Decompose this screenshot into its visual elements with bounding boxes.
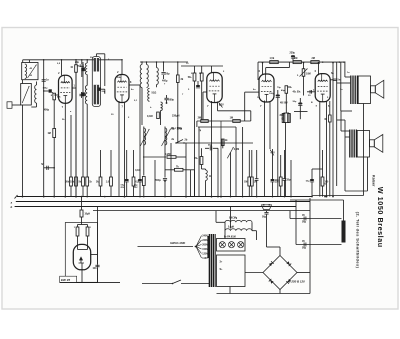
- svg-text:1M: 1M: [294, 57, 297, 60]
- dial lamp 3: [238, 242, 244, 248]
- svg-text:50p: 50p: [287, 180, 292, 182]
- svg-text:51Ω: 51Ω: [152, 92, 157, 95]
- svg-text:1M: 1M: [244, 182, 247, 184]
- output transformer T-sp1: [350, 76, 352, 105]
- svg-text:10µH: 10µH: [85, 214, 91, 216]
- resistor 46k: [285, 86, 288, 94]
- wire transformer bottom: [217, 293, 311, 295]
- wire below-bus heater line: [93, 210, 310, 212]
- resistor 0,2M: [167, 156, 176, 159]
- wire box1 top links: [22, 60, 24, 63]
- loudspeaker SP2 box: [357, 131, 369, 158]
- label EW35 box: [60, 276, 77, 282]
- resistor comb x76: [75, 72, 77, 177]
- svg-text:200V: 200V: [202, 244, 208, 247]
- svg-text:EW 35: EW 35: [61, 278, 70, 282]
- resistor comb x111: [110, 150, 112, 177]
- wire ew35 right vertical: [97, 206, 99, 264]
- svg-text:50µ: 50µ: [302, 247, 307, 250]
- capacitor 50u dot right: [298, 102, 302, 104]
- tube V2 top pin wire: [121, 60, 123, 75]
- capacitor comb x256.7: [256, 150, 258, 179]
- resistor comb x322.5: [322, 150, 324, 177]
- resistor 7k: [174, 168, 183, 171]
- resistor 1k mid: [222, 139, 225, 146]
- rail dots right: [322, 61, 324, 63]
- IF can T2 secondary winding: [94, 85, 99, 105]
- tube V1 pin7 bottom wire: [64, 103, 66, 196]
- svg-text:1,5k: 1,5k: [270, 57, 275, 60]
- resistor ew35 b: [87, 225, 89, 228]
- tube V5 top pin: [318, 63, 320, 75]
- svg-text:10M: 10M: [306, 73, 311, 76]
- capacitor 20p IF1: [81, 60, 83, 64]
- tube V1 pin8 wire: [54, 94, 58, 96]
- trimmer arrow L1: [28, 65, 37, 79]
- wire bus line a: [16, 201, 310, 203]
- wire x186 drop: [185, 143, 187, 197]
- svg-text:400µ: 400µ: [162, 80, 168, 83]
- wire box1-box2 link: [22, 80, 24, 84]
- coil L2b: [35, 85, 37, 103]
- bridge diode 4: [269, 261, 274, 266]
- wire rail branch 67.6: [266, 67, 290, 69]
- resistor 20k mid: [200, 157, 203, 165]
- grid resistor 10M: [302, 69, 305, 77]
- wire V3 125 to bus: [220, 121, 222, 197]
- wire left drop x22.5: [22, 105, 24, 197]
- wire can top: [343, 200, 345, 221]
- tube V3 bottom pins: [211, 101, 213, 197]
- tube V4 bottom pins: [264, 101, 266, 197]
- loudspeaker SP1 magnet: [371, 86, 376, 93]
- loudspeaker SP2 magnet: [370, 140, 375, 147]
- wire V3 top structure: [181, 65, 223, 67]
- tube V5 bottom pins: [319, 102, 321, 197]
- resistor 300ohm a: [282, 114, 285, 123]
- tuned circuit L1 box: [22, 63, 38, 80]
- svg-text:400p: 400p: [44, 108, 50, 111]
- wire mains feed: [138, 246, 194, 248]
- resistor comb x100.5: [100, 150, 102, 177]
- svg-text:2M: 2M: [198, 116, 201, 119]
- svg-text:1M: 1M: [230, 116, 233, 119]
- tube V2 EBF grid dashes: [117, 86, 126, 88]
- svg-text:2M: 2M: [312, 57, 315, 60]
- tube V3 EF grid dashes: [209, 85, 219, 87]
- wire bus line b: [15, 206, 296, 208]
- svg-text:Ω: Ω: [209, 175, 211, 178]
- wire 1M to bus: [235, 127, 237, 197]
- electrolytic 50u b: [296, 244, 342, 246]
- svg-text:Ω: Ω: [325, 184, 327, 186]
- electrolytic 45u: [290, 218, 342, 220]
- top rail junction dots: [61, 59, 63, 61]
- svg-text:Uk = 100µ: Uk = 100µ: [171, 127, 183, 130]
- oscillator coil L4: [146, 62, 148, 65]
- wire ew35 bottom: [60, 282, 120, 284]
- bridge diode 2: [286, 279, 291, 284]
- svg-text:GW/UA 100D: GW/UA 100D: [170, 242, 185, 245]
- svg-text:220V: 220V: [202, 239, 208, 242]
- svg-text:0,6µH: 0,6µH: [228, 226, 235, 228]
- capacitor 20p square a: [81, 67, 85, 71]
- electrolytic 50u psu: [264, 212, 268, 214]
- wire chassis bus line 1: [17, 196, 313, 198]
- svg-text:W 1050 Breslau: W 1050 Breslau: [376, 187, 385, 248]
- tube V3 EF cathode: [213, 93, 217, 95]
- wire sp2 links: [341, 130, 350, 132]
- resistor 10k IF: [75, 60, 77, 65]
- label 62V V3: [219, 103, 223, 108]
- wire choke links: [224, 222, 226, 238]
- tube V2 EBF heater zigzag: [117, 81, 126, 83]
- wire V4 left feed: [245, 91, 259, 93]
- oscillator coil L5: [156, 62, 158, 68]
- tube V5 EL cathode: [321, 93, 325, 95]
- loudspeaker SP2 cone: [374, 135, 383, 153]
- wire main drop x43.7: [43, 60, 45, 197]
- resistor 1M row: [233, 120, 241, 123]
- resistor 0,1M comb: [143, 160, 145, 176]
- resistor V3 screen 1: [194, 66, 196, 73]
- coil L1: [25, 64, 27, 79]
- tuned circuit L2 box: [21, 84, 32, 106]
- svg-text:C 250 B 120: C 250 B 120: [289, 279, 306, 283]
- node bus1 left mark: [15, 195, 18, 199]
- bridge rectifier diamond: [263, 256, 297, 290]
- electrolytic comb x312: [311, 169, 313, 180]
- capacitor V3 dot: [196, 85, 200, 87]
- svg-text:25V: 25V: [134, 187, 138, 189]
- svg-text:50p: 50p: [166, 72, 171, 75]
- svg-text:0,2M: 0,2M: [165, 153, 170, 156]
- electrolytic comb x140: [139, 85, 141, 180]
- svg-text:1M: 1M: [47, 132, 50, 135]
- heater choke 1: [225, 220, 252, 222]
- wire screen row: [197, 120, 251, 122]
- capacitor 20p T2 mid: [98, 88, 101, 91]
- tube V1 grid side wire: [72, 87, 76, 89]
- tube V5 right pin 5n cap: [330, 79, 333, 81]
- svg-text:4B 50V: 4B 50V: [280, 101, 288, 104]
- svg-text:(2. Teil des Schaltbildes): (2. Teil des Schaltbildes): [356, 212, 361, 269]
- tube V3 left pin: [203, 91, 207, 93]
- svg-text:50µ: 50µ: [302, 221, 307, 224]
- resistor comb x71: [70, 115, 72, 177]
- switch 2a wire: [176, 142, 253, 144]
- svg-text:20p: 20p: [102, 91, 106, 93]
- capacitor 70p: [209, 146, 211, 150]
- svg-text:b: b: [10, 205, 12, 209]
- power transformer secondary box: [217, 255, 246, 287]
- svg-text:100p: 100p: [43, 88, 49, 90]
- wire V3 pin5 routing: [217, 102, 219, 111]
- trimmer arrow L2: [22, 86, 29, 103]
- wire b+ feed: [267, 246, 281, 248]
- wire T2 right link: [101, 88, 105, 90]
- voltage selector fan: [196, 236, 202, 247]
- wire ew35 split: [78, 224, 88, 226]
- resistor 1M top rail: [293, 61, 301, 64]
- svg-text:230µH: 230µH: [172, 115, 180, 118]
- svg-text:150V: 150V: [202, 248, 208, 251]
- resistor 10uH ew35: [80, 210, 83, 217]
- resistor 2M row: [201, 120, 209, 123]
- tube V5 EL grid dashes: [318, 85, 328, 87]
- wire sp1 bottom drop: [363, 104, 365, 196]
- wire comb plain drops: [154, 160, 156, 197]
- IF transformer T1 secondary coil: [85, 86, 87, 105]
- tube V4 EABC grid dashes: [262, 86, 272, 88]
- tube V1 ECH envelope: [59, 75, 73, 103]
- tube V1 ECH cathode: [63, 95, 67, 97]
- svg-text:240V: 240V: [202, 235, 208, 238]
- svg-text:0,5M: 0,5M: [234, 148, 239, 151]
- capacitor 50p osc: [161, 72, 165, 74]
- tube V2 EBF cathode: [120, 94, 124, 96]
- capacitor comb x284.5: [284, 150, 286, 179]
- volume pot 0,5M arrow: [227, 147, 233, 158]
- resistor 1,5k top rail: [270, 61, 279, 64]
- IF can T2 primary winding: [94, 58, 99, 72]
- tube V4 EABC envelope: [259, 74, 274, 102]
- resistor osc right: [177, 62, 179, 75]
- tube V3 EF heater zigzag: [209, 80, 219, 82]
- resistor V3 screen 2: [201, 66, 203, 73]
- heater winding box with dial lamps: [217, 239, 246, 252]
- wire bridge connections: [245, 272, 263, 274]
- tube EW35 anode: [78, 249, 88, 251]
- resistor 1M left: [53, 129, 56, 138]
- wire x53 lower: [53, 107, 55, 129]
- capacitor 500p comb: [164, 160, 166, 178]
- tube V1 ECH heater zigzag: [61, 82, 70, 84]
- svg-text:110V: 110V: [202, 257, 208, 260]
- power transformer primary winding: [207, 236, 209, 258]
- resistor 30ohm: [329, 115, 332, 122]
- electrolytic comb x272.5: [272, 149, 274, 180]
- capacitor 5n on bus drop: [44, 167, 55, 169]
- tube V4 EABC heater zigzag: [262, 80, 272, 82]
- svg-text:230µ: 230µ: [290, 51, 296, 54]
- tube V5 left pin 2 cap: [307, 91, 315, 93]
- wire T2 top link: [95, 54, 97, 57]
- svg-text:70p: 70p: [208, 144, 213, 147]
- wire ew35 feed: [81, 197, 83, 210]
- capacitor 1n: [42, 79, 46, 81]
- band coil F2 with arrow: [164, 127, 166, 148]
- wire sp2 bottom drop: [367, 157, 369, 191]
- svg-text:Kaiser: Kaiser: [371, 175, 375, 187]
- dial lamp 2: [228, 242, 234, 248]
- wire speaker verticals: [332, 63, 334, 197]
- power transformer core: [208, 234, 210, 287]
- svg-text:25V: 25V: [120, 187, 124, 189]
- resistor 2M top rail: [311, 61, 319, 64]
- tube EW35 right pin: [91, 254, 98, 256]
- heater choke 2: [225, 229, 252, 231]
- dial lamp 1: [219, 242, 225, 248]
- svg-text:62V: 62V: [220, 104, 225, 107]
- electrolytic comb x126.7: [126, 150, 128, 180]
- tube EW35 envelope: [73, 244, 90, 269]
- wire mid drops: [217, 148, 219, 196]
- output transformer T-sp2: [349, 130, 351, 158]
- svg-text:20p: 20p: [75, 61, 80, 64]
- tube V2 right pin: [129, 84, 140, 86]
- svg-text:10n: 10n: [93, 268, 98, 270]
- tube V5 EL envelope: [315, 74, 330, 102]
- tube EW35 diode arrow: [79, 257, 85, 263]
- resistor ew35 a: [77, 225, 79, 228]
- svg-text:0,1M: 0,1M: [147, 115, 153, 118]
- loudspeaker SP1 cone: [375, 80, 384, 98]
- tube V4 top pin: [262, 63, 264, 75]
- loudspeaker SP1 box: [358, 76, 370, 104]
- enclosure EW35 box: [65, 223, 97, 283]
- tube V1 pin2 top wire: [61, 60, 63, 76]
- resistor 0,1M osc: [157, 112, 160, 119]
- resistor comb x280.7: [280, 155, 282, 177]
- svg-text:Ω: Ω: [281, 119, 283, 121]
- wire top rail left section: [23, 59, 122, 61]
- capacitor square b: [81, 92, 85, 96]
- svg-text:20p: 20p: [77, 66, 81, 68]
- tube V2 bottom pins: [118, 101, 120, 197]
- resistor comb x83: [82, 62, 84, 177]
- wire oscillator top rail: [140, 61, 188, 63]
- oscillator coil L6: [148, 88, 150, 101]
- capacitor 100u dot: [276, 94, 280, 96]
- capacitor T1 sec: [79, 93, 83, 95]
- antenna input box: [7, 102, 12, 109]
- svg-text:500p: 500p: [169, 99, 175, 102]
- svg-text:40k 50k: 40k 50k: [293, 91, 302, 94]
- band coil F1 with arrow: [143, 127, 145, 148]
- svg-text:125V: 125V: [202, 253, 208, 256]
- label 62V V4 arrow: [270, 150, 274, 156]
- field coil trapezoid: [262, 205, 272, 210]
- tube V5 EL heater zigzag: [318, 80, 328, 82]
- tube V3 EF envelope: [207, 73, 222, 103]
- mains switch: [142, 283, 172, 285]
- svg-text:Pr PA 61M: Pr PA 61M: [224, 235, 236, 238]
- wire osc bottoms: [143, 148, 145, 161]
- oscillator coil L3: [141, 62, 143, 65]
- electrolytic can: [342, 221, 346, 243]
- tube V1 ECH grid dashes: [61, 87, 70, 89]
- choke NF mid: [206, 170, 208, 181]
- switch 2a contacts: [176, 140, 183, 144]
- capacitor 100p block: [44, 90, 49, 92]
- svg-text:50µ: 50µ: [262, 216, 267, 219]
- IF transformer can T2 outline: [92, 57, 100, 107]
- resistor comb x133.5: [133, 150, 135, 177]
- wire top rail right: [258, 61, 346, 63]
- capacitor 500p osc: [164, 97, 168, 99]
- svg-text:500p: 500p: [155, 179, 161, 182]
- resistor 300ohm b: [288, 114, 291, 123]
- bus junction dots: [22, 196, 24, 198]
- resistor comb x249.3: [248, 150, 250, 177]
- choke small osc: [161, 102, 163, 111]
- tube V4 EABC cathode: [265, 93, 269, 95]
- bridge diode 1: [286, 261, 291, 266]
- tube V2 EBF envelope: [115, 75, 129, 103]
- svg-text:100µ: 100µ: [269, 93, 275, 95]
- wire right psu vertical: [309, 198, 311, 294]
- resistor 40k left: [52, 92, 54, 95]
- wire speaker horizontal links: [345, 76, 350, 78]
- resistor comb x251.8: [251, 150, 253, 177]
- resistor comb x87.2: [86, 104, 88, 177]
- electrolytic 230u top: [291, 55, 295, 57]
- bridge diode 3: [269, 279, 274, 284]
- IF transformer T1 primary coil: [86, 60, 88, 63]
